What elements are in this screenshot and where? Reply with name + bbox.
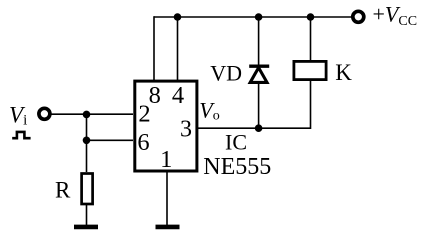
terminal +Vcc <box>353 11 364 22</box>
svg-text:VD: VD <box>210 61 242 86</box>
wire diode branch vertical <box>258 17 260 128</box>
wire pin 6 <box>87 139 134 141</box>
svg-text:K: K <box>335 60 352 85</box>
wire pin 1 to ground <box>166 171 168 225</box>
wire relay branch vertical top <box>310 17 312 61</box>
terminal Vi input <box>39 108 50 119</box>
svg-text:NE555: NE555 <box>203 154 271 180</box>
svg-text:2: 2 <box>138 100 150 127</box>
ground right (pin 1) <box>156 225 180 230</box>
ground left <box>74 225 98 230</box>
wire R to ground <box>86 205 88 225</box>
wire top rail +Vcc <box>154 16 352 18</box>
svg-text:3: 3 <box>180 116 192 142</box>
IC U1 NE555 box <box>135 81 197 171</box>
wire vertical to pin 6 and R <box>86 114 88 172</box>
wire pin 2 input <box>50 113 133 115</box>
svg-text:6: 6 <box>137 129 149 156</box>
svg-text:1: 1 <box>160 146 172 173</box>
relay K coil <box>294 61 326 79</box>
node junction diode/rail <box>255 13 263 21</box>
svg-text:IC: IC <box>225 130 247 155</box>
wire pin 3 output <box>197 127 259 129</box>
node junction input/R <box>83 111 91 119</box>
wire pin 4 vertical <box>177 17 179 81</box>
node junction pin6 <box>83 137 91 145</box>
resistor R <box>82 174 93 205</box>
diode VD <box>249 66 269 82</box>
wire pin 8 vertical <box>153 16 155 80</box>
node junction relay/rail <box>307 13 315 21</box>
node junction pin4/rail <box>174 13 182 21</box>
wire relay branch vertical bottom <box>259 80 311 128</box>
svg-text:R: R <box>55 178 71 203</box>
node junction diode/output <box>255 124 263 132</box>
pulse symbol <box>12 132 30 138</box>
svg-text:4: 4 <box>172 82 184 109</box>
